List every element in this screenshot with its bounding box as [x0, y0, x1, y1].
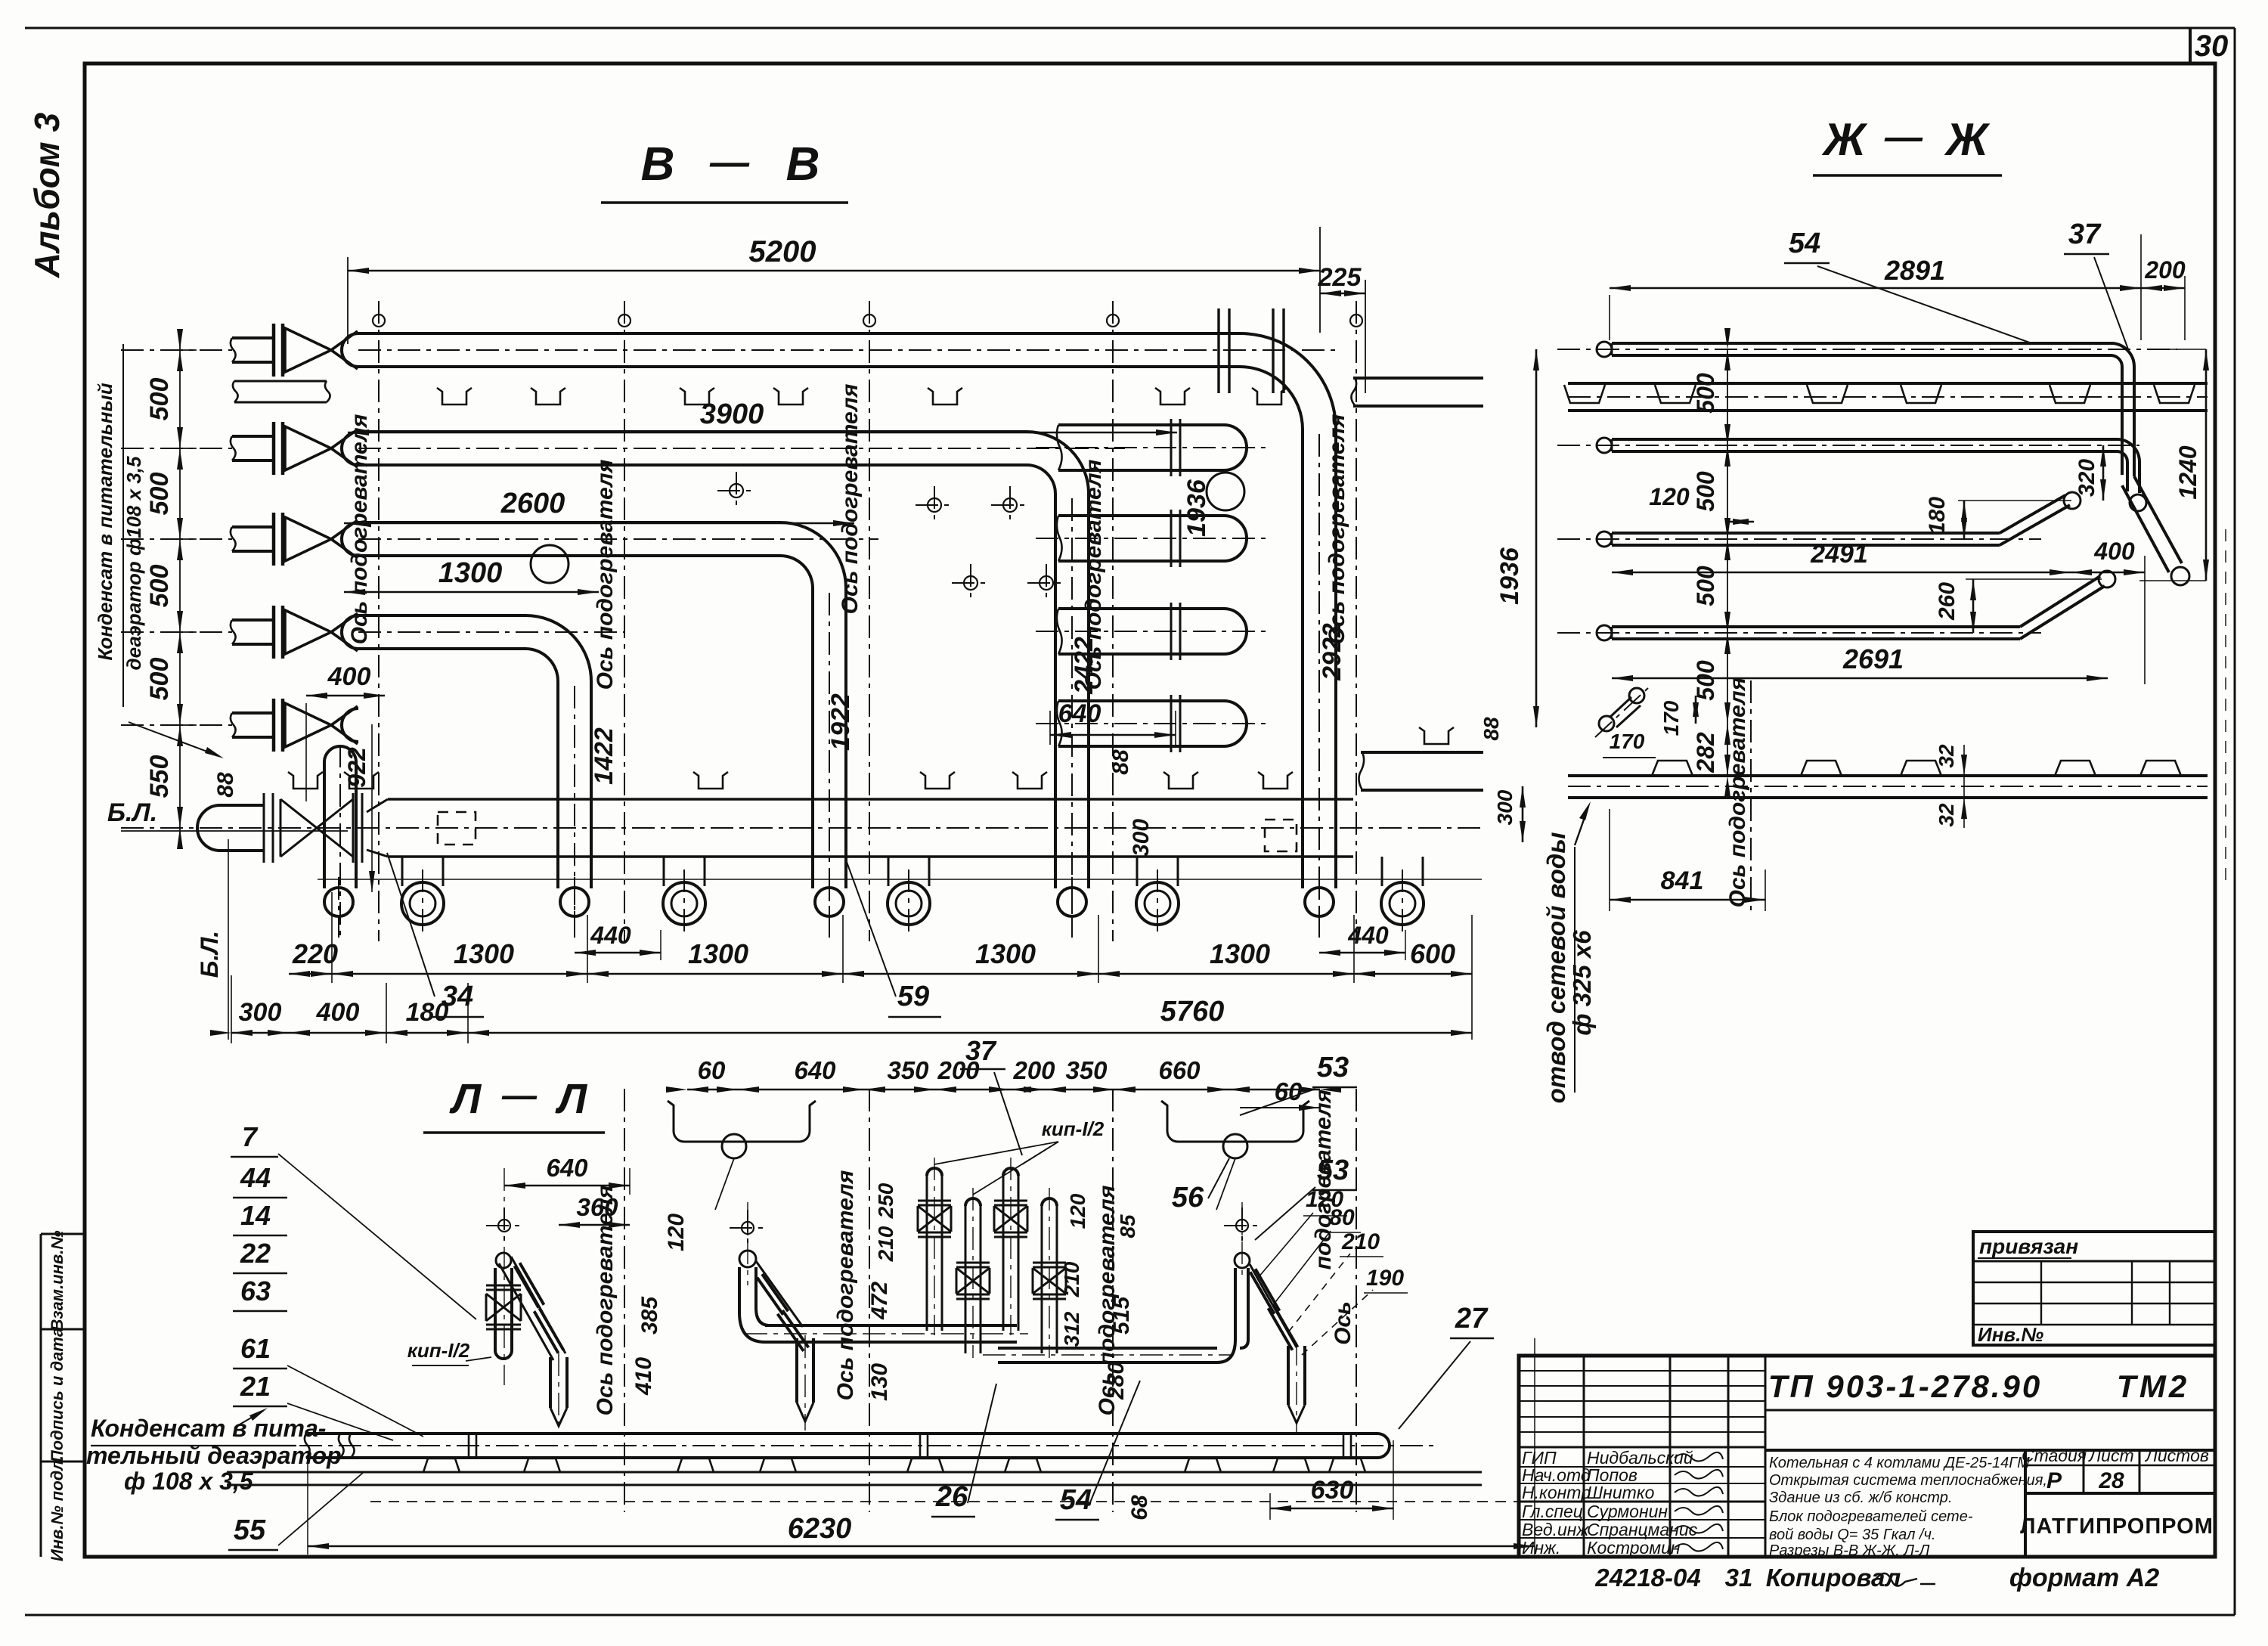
svg-text:Л: Л	[449, 1074, 482, 1122]
svg-text:формат А2: формат А2	[2009, 1564, 2159, 1592]
svg-text:Инж.: Инж.	[1522, 1538, 1560, 1558]
svg-text:тельный деаэратор: тельный деаэратор	[86, 1442, 342, 1469]
svg-text:Н.контр: Н.контр	[1522, 1483, 1591, 1502]
svg-text:640: 640	[546, 1154, 588, 1182]
svg-text:Ось подогревателя: Ось подогревателя	[593, 459, 618, 690]
svg-text:515: 515	[1109, 1296, 1134, 1334]
svg-text:Б.Л.: Б.Л.	[107, 798, 157, 827]
svg-text:Альбом 3: Альбом 3	[27, 113, 67, 279]
svg-text:1300: 1300	[454, 938, 514, 969]
svg-text:88: 88	[1479, 717, 1503, 741]
svg-text:170: 170	[1610, 730, 1645, 753]
svg-text:Разрезы В-В Ж-Ж, Л-Л: Разрезы В-В Ж-Ж, Л-Л	[1769, 1542, 1930, 1559]
svg-text:ЛАТГИПРОПРОМ: ЛАТГИПРОПРОМ	[2020, 1514, 2214, 1539]
svg-text:2691: 2691	[1842, 643, 1904, 674]
svg-text:500: 500	[1692, 660, 1719, 701]
svg-text:53: 53	[1317, 1052, 1349, 1083]
svg-text:Инв.№ подл.: Инв.№ подл.	[48, 1455, 67, 1561]
svg-text:1300: 1300	[1210, 938, 1270, 969]
svg-text:Б.Л.: Б.Л.	[196, 931, 223, 978]
svg-text:В: В	[641, 138, 675, 191]
svg-text:500: 500	[145, 378, 174, 421]
svg-text:1300: 1300	[438, 557, 503, 589]
svg-text:225: 225	[1318, 263, 1362, 292]
svg-text:360: 360	[576, 1193, 618, 1221]
svg-text:Л: Л	[555, 1074, 588, 1122]
svg-text:410: 410	[631, 1357, 656, 1396]
svg-text:1300: 1300	[688, 938, 748, 969]
svg-text:320: 320	[2074, 459, 2099, 497]
svg-text:14: 14	[240, 1200, 271, 1231]
svg-text:32: 32	[1935, 744, 1958, 768]
svg-text:250: 250	[874, 1183, 897, 1219]
svg-text:В: В	[786, 138, 820, 191]
svg-text:660: 660	[1158, 1056, 1201, 1084]
svg-text:500: 500	[145, 565, 174, 608]
svg-text:Шнитко: Шнитко	[1587, 1483, 1655, 1502]
svg-text:640: 640	[794, 1056, 836, 1084]
svg-text:130: 130	[867, 1363, 892, 1401]
svg-text:200: 200	[2144, 256, 2186, 284]
svg-text:120: 120	[664, 1214, 689, 1251]
svg-text:61: 61	[240, 1333, 271, 1364]
svg-text:550: 550	[145, 755, 174, 798]
svg-text:60: 60	[698, 1056, 726, 1084]
svg-text:120: 120	[1649, 483, 1690, 510]
svg-text:200: 200	[1012, 1056, 1055, 1084]
svg-text:24218-04: 24218-04	[1594, 1564, 1700, 1592]
svg-text:32: 32	[1935, 803, 1958, 827]
svg-text:630: 630	[1311, 1476, 1354, 1505]
svg-text:28: 28	[2098, 1468, 2124, 1493]
svg-text:59: 59	[897, 981, 929, 1012]
svg-text:88: 88	[1108, 749, 1133, 775]
svg-text:56: 56	[1172, 1182, 1204, 1214]
svg-text:Р: Р	[2046, 1468, 2062, 1493]
svg-text:1240: 1240	[2174, 445, 2201, 499]
svg-text:Стадия: Стадия	[2022, 1446, 2087, 1465]
svg-text:440: 440	[1347, 922, 1389, 949]
svg-text:Конденсат в пита-: Конденсат в пита-	[91, 1415, 326, 1442]
svg-text:21: 21	[240, 1371, 271, 1402]
svg-text:5760: 5760	[1160, 996, 1225, 1028]
svg-text:2891: 2891	[1884, 255, 1945, 286]
svg-text:440: 440	[590, 922, 631, 949]
svg-text:500: 500	[145, 658, 174, 701]
svg-text:37: 37	[965, 1035, 997, 1066]
svg-text:Ось подогревателя: Ось подогревателя	[1725, 677, 1750, 907]
svg-text:вой воды Q= 35 Гкал /ч.: вой воды Q= 35 Гкал /ч.	[1769, 1527, 1935, 1543]
svg-text:5200: 5200	[749, 235, 816, 268]
svg-text:Здание из сб. ж/б констр.: Здание из сб. ж/б констр.	[1769, 1489, 1952, 1506]
svg-text:22: 22	[240, 1238, 271, 1269]
svg-text:400: 400	[2093, 538, 2135, 565]
svg-text:88: 88	[213, 772, 238, 798]
svg-text:2422: 2422	[1070, 637, 1098, 695]
svg-text:Взам.инв.№: Взам.инв.№	[48, 1230, 67, 1331]
svg-text:ТП 903-1-278.90: ТП 903-1-278.90	[1768, 1369, 2042, 1404]
svg-text:85: 85	[1116, 1214, 1139, 1238]
svg-text:Лист: Лист	[2087, 1446, 2133, 1465]
svg-text:54: 54	[1789, 228, 1820, 259]
svg-text:Ось подогревателя: Ось подогревателя	[833, 1170, 858, 1400]
svg-text:Ось подогревателя: Ось подогревателя	[1325, 414, 1349, 644]
svg-text:Вед.инж: Вед.инж	[1522, 1520, 1589, 1539]
svg-text:Инв.№: Инв.№	[1978, 1323, 2043, 1346]
svg-text:ф 325 х6: ф 325 х6	[1568, 930, 1596, 1036]
svg-text:190: 190	[1366, 1266, 1404, 1291]
svg-text:1936: 1936	[1495, 547, 1524, 605]
svg-text:6230: 6230	[788, 1513, 852, 1545]
svg-text:922: 922	[343, 747, 370, 788]
svg-text:деаэратор ф108 х 3,5: деаэратор ф108 х 3,5	[122, 456, 145, 670]
svg-text:—: —	[1884, 116, 1923, 158]
svg-text:Блок подогревателей сете-: Блок подогревателей сете-	[1769, 1508, 1973, 1525]
svg-text:300: 300	[1493, 789, 1517, 825]
svg-text:260: 260	[1935, 582, 1960, 621]
svg-text:Копировал: Копировал	[1766, 1564, 1901, 1592]
svg-text:отвод сетевой воды: отвод сетевой воды	[1542, 832, 1570, 1104]
svg-text:30: 30	[2195, 29, 2229, 63]
svg-text:63: 63	[240, 1276, 271, 1307]
svg-text:280: 280	[1104, 1362, 1129, 1400]
svg-text:210: 210	[1341, 1229, 1380, 1254]
svg-text:500: 500	[1692, 471, 1719, 512]
svg-text:26: 26	[935, 1481, 968, 1513]
svg-text:ТМ2: ТМ2	[2117, 1369, 2190, 1404]
svg-text:31: 31	[1725, 1564, 1753, 1592]
svg-text:841: 841	[1661, 866, 1704, 895]
svg-text:37: 37	[2068, 219, 2102, 250]
svg-text:2491: 2491	[1810, 540, 1868, 569]
svg-text:600: 600	[1410, 938, 1455, 969]
svg-text:1922: 1922	[826, 693, 855, 751]
svg-text:Листов: Листов	[2144, 1446, 2209, 1465]
svg-text:400: 400	[327, 662, 371, 691]
svg-text:312: 312	[1060, 1311, 1083, 1347]
svg-text:1422: 1422	[590, 727, 618, 785]
svg-text:300: 300	[239, 998, 282, 1027]
svg-text:2922: 2922	[1318, 623, 1346, 681]
svg-text:Ж: Ж	[1944, 114, 1991, 165]
svg-text:Открытая система теплоснабжени: Открытая система теплоснабжения,	[1769, 1472, 2047, 1489]
svg-text:—: —	[501, 1075, 538, 1114]
svg-text:27: 27	[1455, 1303, 1489, 1334]
svg-text:Ось подогревателя: Ось подогревателя	[838, 383, 863, 614]
svg-text:Ж: Ж	[1821, 114, 1868, 165]
svg-text:350: 350	[887, 1056, 929, 1084]
svg-text:400: 400	[316, 998, 360, 1027]
svg-text:кип-І/2: кип-І/2	[1042, 1117, 1105, 1140]
svg-text:1300: 1300	[975, 938, 1036, 969]
svg-text:472: 472	[867, 1282, 892, 1320]
svg-text:500: 500	[1692, 373, 1719, 414]
svg-text:3900: 3900	[700, 398, 764, 430]
svg-text:220: 220	[292, 938, 338, 969]
svg-text:Ось: Ось	[1331, 1301, 1356, 1345]
svg-text:Конденсат в питательный: Конденсат в питательный	[94, 383, 116, 660]
svg-text:120: 120	[1066, 1193, 1089, 1229]
svg-text:55: 55	[234, 1514, 266, 1546]
svg-text:54: 54	[1060, 1484, 1092, 1516]
svg-text:210: 210	[874, 1226, 897, 1262]
svg-text:180: 180	[1925, 497, 1950, 535]
svg-text:привязан: привязан	[1979, 1235, 2078, 1258]
svg-text:170: 170	[1659, 700, 1683, 736]
svg-text:Подпись и дата: Подпись и дата	[48, 1328, 67, 1462]
svg-text:34: 34	[442, 981, 473, 1012]
svg-text:Котельная с 4 котлами ДЕ-25-14: Котельная с 4 котлами ДЕ-25-14ГМ	[1769, 1455, 2030, 1471]
svg-text:Спранцманис: Спранцманис	[1587, 1520, 1698, 1539]
svg-text:1936: 1936	[1182, 479, 1211, 537]
svg-text:210: 210	[1060, 1261, 1083, 1297]
svg-text:Ось подогревателя: Ось подогревателя	[347, 414, 372, 644]
svg-text:2600: 2600	[500, 488, 565, 519]
svg-text:кип-І/2: кип-І/2	[407, 1339, 470, 1362]
svg-text:53: 53	[1317, 1155, 1349, 1186]
svg-text:Сурмонин: Сурмонин	[1587, 1502, 1668, 1521]
svg-text:300: 300	[1129, 819, 1154, 857]
svg-text:385: 385	[637, 1296, 662, 1334]
svg-text:350: 350	[1065, 1056, 1108, 1084]
svg-text:44: 44	[240, 1162, 271, 1193]
svg-text:Гл.спец: Гл.спец	[1522, 1502, 1583, 1521]
svg-text:ф 108 х 3,5: ф 108 х 3,5	[124, 1468, 254, 1495]
svg-text:7: 7	[242, 1121, 259, 1152]
svg-text:68: 68	[1127, 1495, 1152, 1520]
svg-text:80: 80	[1329, 1205, 1355, 1230]
svg-text:640: 640	[1058, 699, 1101, 728]
svg-text:—: —	[709, 141, 750, 184]
svg-text:500: 500	[145, 473, 174, 516]
svg-text:Костромин: Костромин	[1587, 1538, 1681, 1558]
svg-text:282: 282	[1692, 732, 1719, 773]
